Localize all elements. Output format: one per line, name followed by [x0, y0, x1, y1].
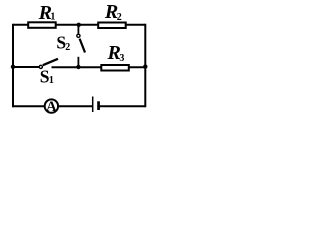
- switch S2 contact circle: [77, 34, 80, 37]
- wire middle right (switch S1 to right edge, passes under R3): [52, 66, 146, 68]
- wire right edge: [144, 24, 146, 108]
- battery long plate (positive): [92, 97, 94, 113]
- svg-text:2: 2: [117, 12, 122, 23]
- battery short plate (negative): [97, 101, 100, 110]
- svg-text:1: 1: [50, 12, 55, 23]
- switch S1 blade: [43, 59, 58, 65]
- resistor R1: [28, 22, 56, 28]
- resistor R3: [101, 65, 129, 71]
- node junction top (between R1 and R2): [77, 23, 81, 27]
- wire bottom left (left corner to battery long plate): [13, 105, 93, 107]
- svg-text:1: 1: [49, 75, 54, 86]
- node junction left edge: [11, 65, 15, 69]
- node junction S2 branch to middle wire: [76, 65, 80, 69]
- resistor R2: [98, 23, 126, 29]
- svg-text:A: A: [46, 99, 57, 115]
- ammeter A: [45, 99, 58, 112]
- wire S2 branch lower stub: [77, 57, 79, 67]
- wire S2 branch upper stub: [77, 25, 79, 34]
- wire bottom right (battery to right corner): [100, 105, 146, 107]
- wire top (left corner to right corner): [13, 24, 145, 26]
- node junction right edge: [143, 64, 147, 68]
- svg-text:2: 2: [65, 42, 70, 53]
- switch S1 contact circle: [39, 65, 42, 68]
- wire middle left (left edge to switch S1): [13, 66, 39, 68]
- wire left edge: [12, 24, 14, 108]
- svg-text:3: 3: [119, 53, 124, 64]
- switch S2 blade: [80, 39, 85, 53]
